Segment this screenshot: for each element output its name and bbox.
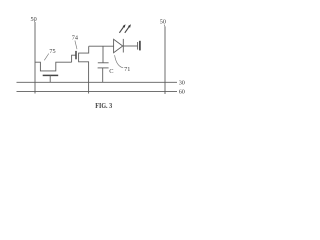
svg-text:50: 50 <box>31 16 37 23</box>
cathode terminal bar 2 <box>139 41 141 51</box>
capacitor C top plate <box>98 62 109 64</box>
svg-text:75: 75 <box>49 48 55 55</box>
anode wire node A <box>89 45 114 47</box>
wire 75 drain to 74 gate <box>72 55 76 62</box>
capacitor C bottom lead <box>102 68 104 82</box>
transistor 74 gate bar <box>75 51 77 59</box>
transistor 75 gate lead <box>49 75 51 82</box>
leader tick 50 right <box>163 25 166 27</box>
svg-text:C: C <box>109 68 113 75</box>
power line 50 (left vertical) <box>34 22 36 94</box>
transistor 74 channel <box>79 46 89 93</box>
svg-text:74: 74 <box>72 34 78 41</box>
leader line 71 <box>115 55 124 68</box>
svg-text:50: 50 <box>160 19 166 26</box>
arrowhead 1 <box>123 24 126 28</box>
scan line 30 <box>17 81 178 83</box>
cathode wire <box>123 45 137 47</box>
LED 71 cathode bar <box>122 39 124 53</box>
svg-text:60: 60 <box>179 89 185 96</box>
svg-text:FIG. 3: FIG. 3 <box>95 101 112 110</box>
transistor 75 gate bar <box>43 74 59 76</box>
cathode terminal bar 1 <box>137 42 139 50</box>
supply line 60 <box>17 90 178 92</box>
arrowhead 2 <box>128 24 131 28</box>
capacitor C top lead <box>102 46 104 63</box>
transistor 75 channel <box>35 62 72 71</box>
capacitor C bottom plate <box>98 67 109 69</box>
power line 50 (right vertical) <box>164 27 166 95</box>
svg-text:30: 30 <box>179 80 185 87</box>
light emission arrow 1 <box>119 26 124 32</box>
LED 71 triangle <box>114 39 123 52</box>
leader tick 50 left <box>33 21 36 23</box>
leader line 75 <box>44 54 49 61</box>
leader line 74 <box>75 41 77 50</box>
svg-text:71: 71 <box>124 66 130 73</box>
light emission arrow 2 <box>125 26 130 32</box>
